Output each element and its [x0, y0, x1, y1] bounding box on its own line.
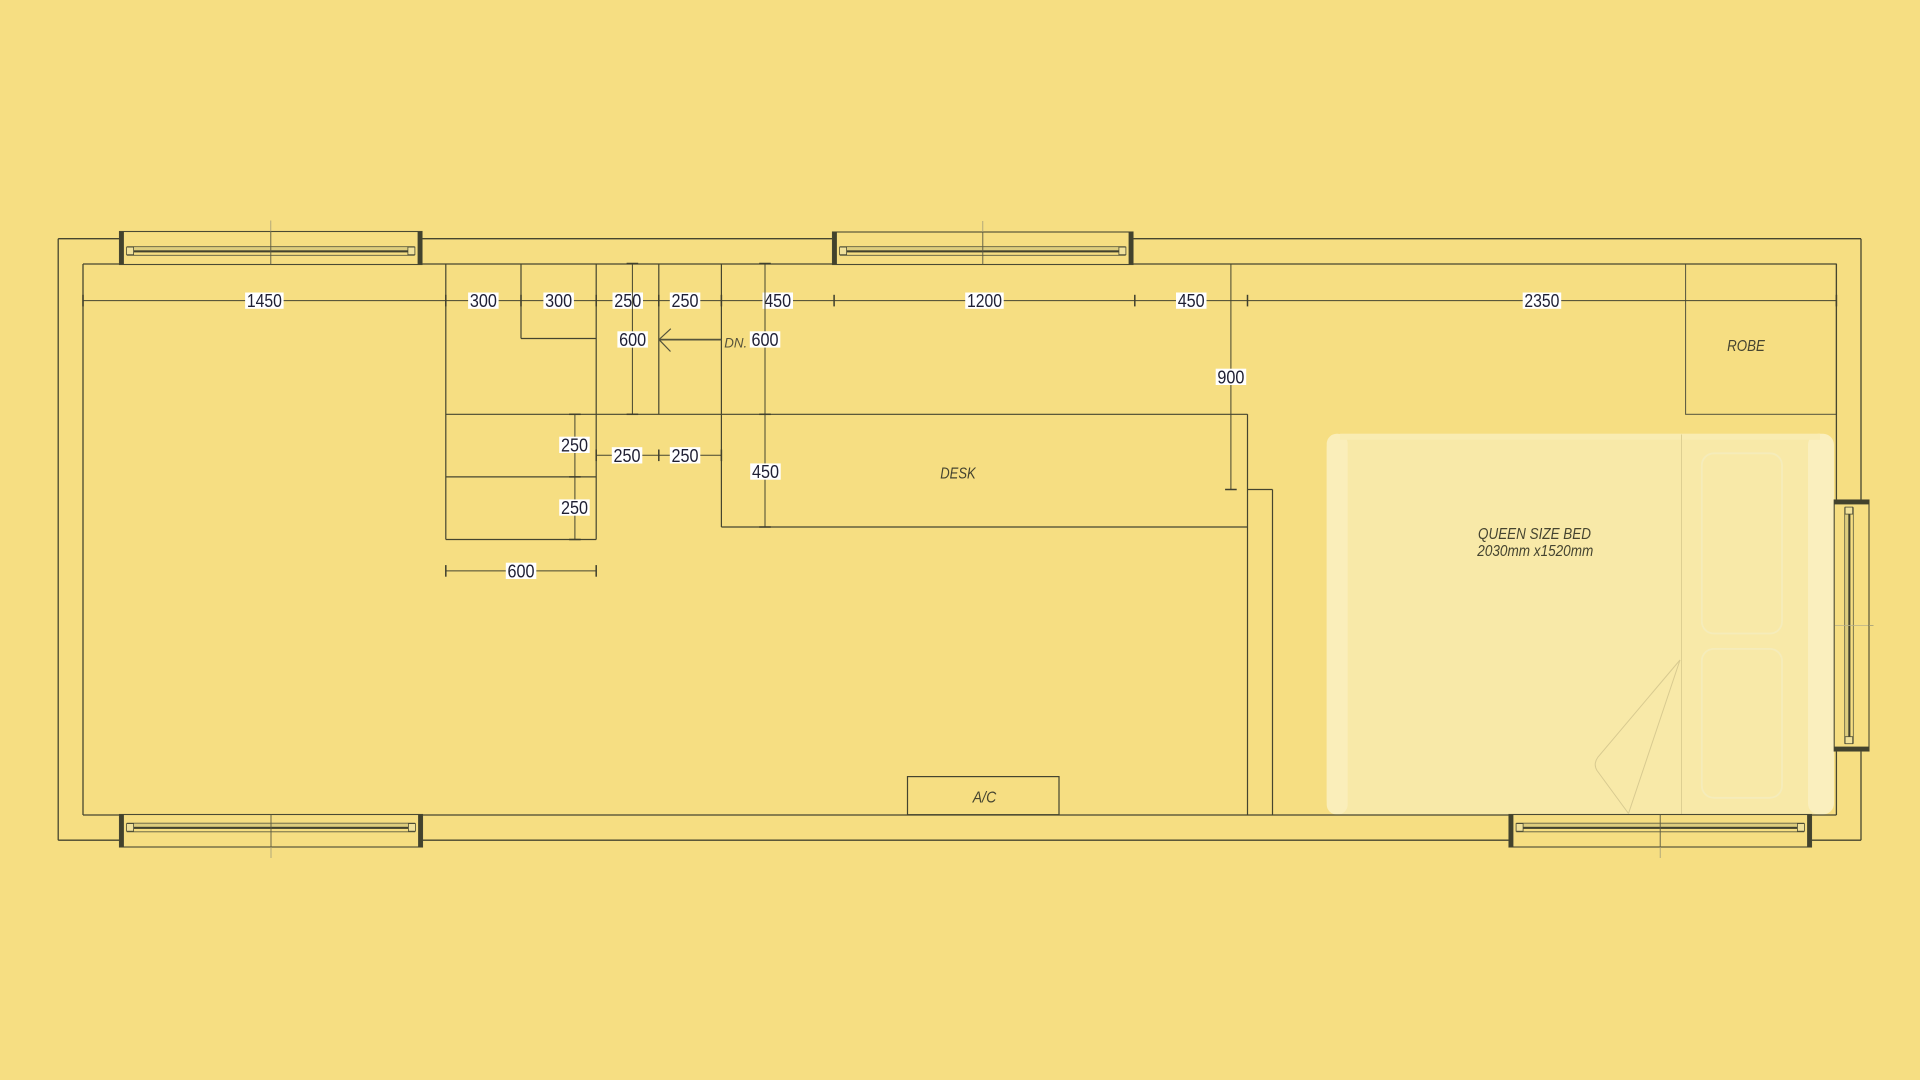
horizontal dim 600 (bottom of stairs) — [446, 562, 596, 582]
svg-text:450: 450 — [1178, 291, 1205, 311]
stair side wall — [445, 264, 447, 540]
bed fold — [1595, 660, 1680, 814]
inner wall left — [82, 264, 84, 815]
outer wall top — [58, 238, 1861, 240]
svg-text:250: 250 — [561, 498, 588, 518]
svg-text:250: 250 — [614, 291, 641, 311]
vertical dim 250/250 line (steps) — [559, 414, 590, 539]
dim label 250 b — [670, 291, 701, 311]
dim label 2350 — [1523, 291, 1562, 311]
A/C unit — [908, 777, 1060, 815]
svg-text:600: 600 — [752, 330, 779, 350]
vertical dim 600 line (stair) — [617, 264, 648, 415]
stair tread line b — [720, 264, 722, 527]
horizontal dim 250/250 (mid) — [596, 446, 721, 466]
svg-text:450: 450 — [752, 462, 779, 482]
svg-text:ROBE: ROBE — [1727, 338, 1765, 355]
vertical dim 900 line — [1216, 264, 1247, 490]
window W5 right-side — [1834, 500, 1873, 751]
desk top edge — [446, 413, 1248, 415]
svg-text:250: 250 — [672, 291, 699, 311]
window W2 top-middle — [833, 221, 1134, 265]
svg-text:1200: 1200 — [967, 291, 1002, 311]
svg-text:900: 900 — [1217, 367, 1244, 387]
svg-text:250: 250 — [561, 435, 588, 455]
partition wall left line — [1247, 414, 1249, 815]
svg-text:DESK: DESK — [940, 465, 976, 482]
stair lower tread line a — [446, 476, 596, 478]
window W4 bottom-right — [1509, 815, 1812, 859]
top dimension ticks — [83, 295, 1836, 307]
svg-text:450: 450 — [764, 291, 791, 311]
svg-text:A/C: A/C — [972, 789, 997, 806]
svg-text:600: 600 — [508, 562, 535, 582]
outer wall right — [1860, 239, 1862, 841]
dim label 1200 — [965, 291, 1004, 311]
svg-text:2350: 2350 — [1524, 291, 1559, 311]
partition wall jog — [1248, 489, 1273, 491]
inner wall top — [83, 263, 1836, 265]
svg-text:DN.: DN. — [724, 334, 747, 350]
outer wall left — [57, 239, 59, 841]
stair winder divider — [520, 264, 522, 339]
outer wall bottom — [58, 839, 1861, 841]
svg-text:300: 300 — [545, 291, 572, 311]
dim label 300 a — [468, 291, 499, 311]
inner wall right — [1835, 264, 1837, 815]
queen size bed — [1327, 434, 1834, 815]
down arrow — [659, 329, 721, 352]
stair lower tread line b — [446, 539, 596, 541]
svg-text:300: 300 — [470, 291, 497, 311]
svg-text:QUEEN SIZE BED: QUEEN SIZE BED — [1478, 526, 1591, 543]
robe closet — [1686, 264, 1837, 414]
pillow 2 — [1702, 649, 1782, 798]
top dimension chain line — [83, 300, 1836, 302]
stair tread line a — [658, 264, 660, 414]
svg-text:1450: 1450 — [247, 291, 282, 311]
partition wall right line — [1272, 490, 1274, 816]
dim label 1450 — [245, 291, 284, 311]
desk bottom edge — [721, 526, 1247, 528]
bed sheet line — [1681, 435, 1683, 815]
svg-text:600: 600 — [619, 330, 646, 350]
window W1 top-left — [120, 221, 423, 265]
stair winder half line — [521, 338, 596, 340]
dim label 450 top — [763, 291, 794, 311]
svg-text:250: 250 — [614, 446, 641, 466]
svg-text:2030mm x1520mm: 2030mm x1520mm — [1476, 543, 1593, 560]
vertical dim 600/450 line (desk) — [750, 264, 781, 528]
dim label 250 a — [613, 291, 644, 311]
dim label 450 top b — [1176, 291, 1207, 311]
window W3 bottom-left — [120, 815, 423, 859]
inner wall bottom — [83, 814, 1836, 816]
dim label 300 b — [543, 291, 574, 311]
stair edge line — [595, 264, 597, 540]
pillow 1 — [1702, 453, 1782, 633]
svg-text:250: 250 — [672, 446, 699, 466]
